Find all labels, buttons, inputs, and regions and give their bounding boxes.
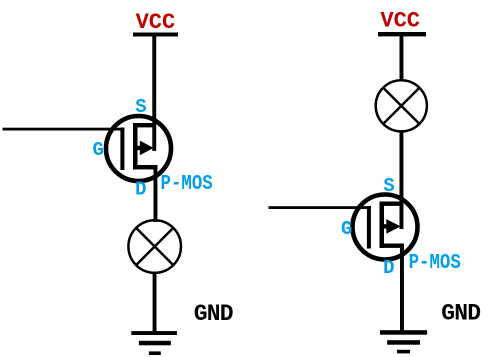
ground bar 2 [139, 341, 171, 346]
ground bar 3 [397, 350, 410, 354]
Q1 source stub [133, 123, 156, 127]
Q2 channel bar [380, 202, 385, 249]
L1 diagonal / [136, 228, 173, 265]
svg-text:S: S [135, 96, 146, 118]
wire lamp L2 to source of Q2 [400, 131, 404, 230]
ground bar 3 [149, 351, 161, 355]
Q1 body circle [106, 116, 171, 181]
svg-text:G: G [341, 218, 352, 240]
svg-text:D: D [383, 257, 394, 279]
Q2 gate plate [367, 206, 371, 249]
svg-text:P-MOS: P-MOS [409, 250, 461, 274]
power rail VCC right [378, 32, 426, 36]
ground symbol right [380, 330, 427, 353]
wire gate of Q2 (input) [269, 206, 371, 209]
power rail VCC left [133, 33, 178, 37]
wire gate of Q1 (input, from left edge) [3, 128, 125, 131]
ground bar 1 [131, 331, 177, 335]
svg-text:GND: GND [194, 301, 234, 327]
svg-text:S: S [383, 175, 394, 197]
svg-text:G: G [93, 139, 104, 161]
L2 circle [376, 80, 427, 131]
lamp L2 (circle with X) [376, 80, 427, 131]
ground bar 1 [380, 330, 427, 335]
Q1 body stub [135, 146, 142, 150]
Q2 drain stub [380, 244, 405, 248]
wire drain of Q2 to ground [400, 246, 404, 332]
Q2 body stub [382, 224, 389, 228]
Q1 channel bar [133, 123, 138, 170]
L2 diagonal \ [383, 88, 419, 124]
lamp L1 (circle with X) [128, 220, 181, 273]
L1 diagonal \ [136, 228, 173, 265]
L1 circle [128, 220, 181, 273]
svg-text:GND: GND [441, 301, 481, 327]
Q1 body arrow (points right) [140, 141, 154, 156]
ground symbol left [131, 331, 177, 355]
svg-text:VCC: VCC [380, 9, 420, 34]
Q2 body circle [353, 195, 418, 260]
svg-text:D: D [135, 179, 146, 201]
Q1 gate plate [120, 128, 124, 171]
svg-text:P-MOS: P-MOS [161, 172, 213, 196]
Q1 drain stub [133, 165, 158, 169]
wire VCC rail to lamp L2 [400, 34, 404, 81]
wire drain of Q1 to lamp L1 [154, 167, 158, 222]
ground bar 2 [387, 340, 420, 345]
svg-text:VCC: VCC [136, 10, 176, 35]
wire VCC rail to source of Q1 [152, 34, 156, 151]
transistor Q2 (P-MOS) [353, 195, 418, 260]
L2 diagonal / [383, 88, 419, 124]
transistor Q1 (P-MOS) [106, 116, 171, 181]
Q2 source stub [380, 202, 404, 206]
wire lamp L1 to ground [153, 272, 157, 332]
Q2 body arrow (points right) [386, 219, 400, 234]
